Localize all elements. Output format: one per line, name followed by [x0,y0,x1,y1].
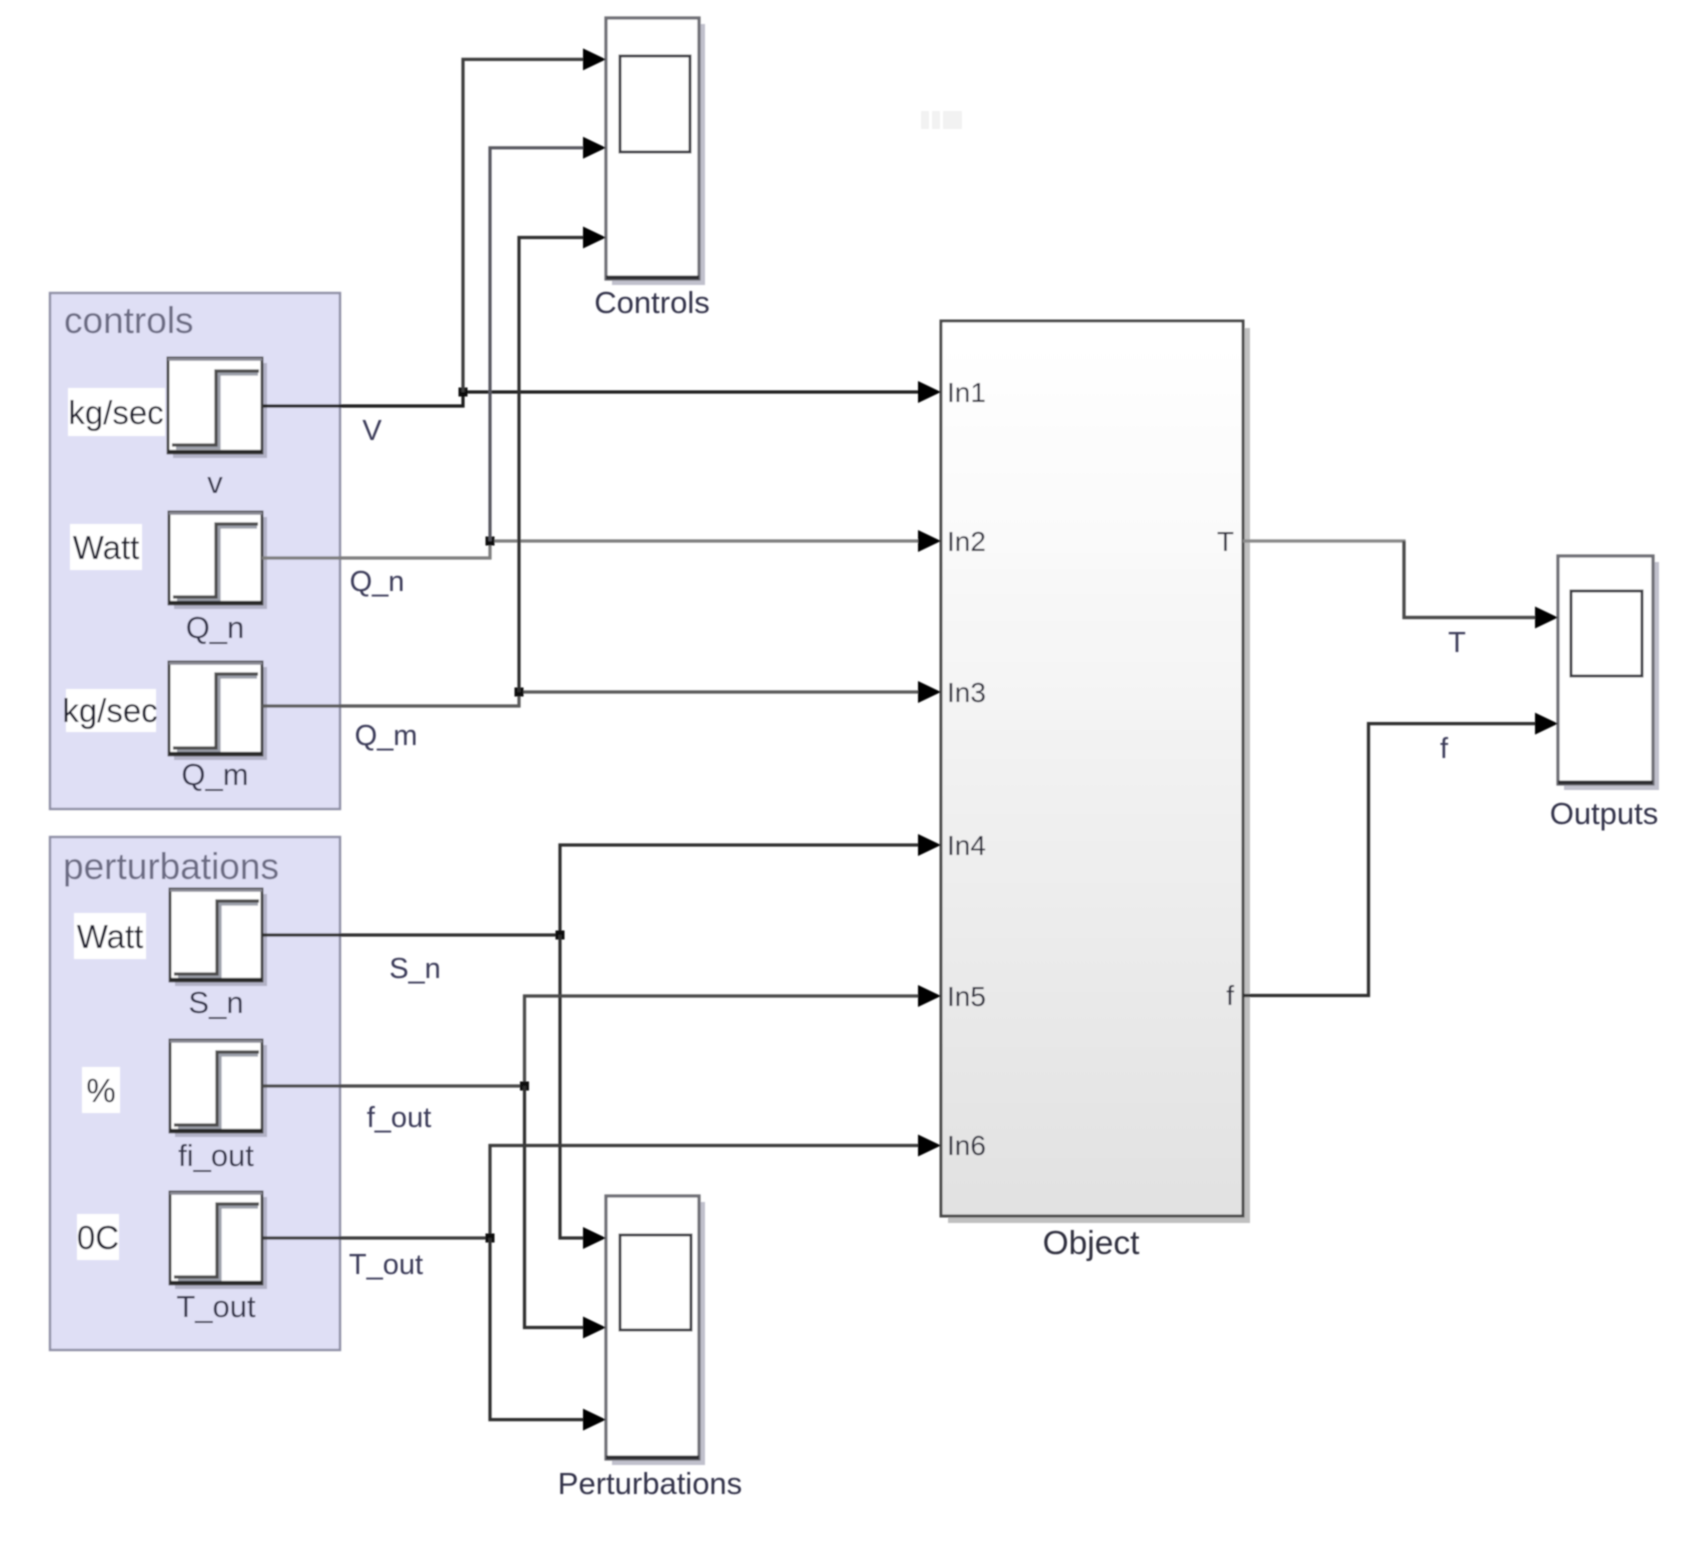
arrow into In1 [918,381,941,403]
svg-text:In6: In6 [947,1130,986,1161]
arrow into Perturbations In2 [583,1317,606,1339]
svg-text:Object: Object [1043,1225,1141,1262]
arrow into Outputs f [1535,713,1558,735]
arrow into In3 [918,681,941,703]
svg-text:Outputs: Outputs [1550,796,1659,831]
wire S_n branch to Perturbations In1 [560,935,585,1238]
unit label % (fi_out) [82,1067,120,1113]
svg-text:kg/sec: kg/sec [68,394,163,431]
svg-text:V: V [362,415,382,447]
arrow into In5 [918,985,941,1007]
wire f_out to In5 [262,996,921,1086]
arrow into In2 [918,530,941,552]
arrow into Controls In2 [583,137,606,159]
group box: perturbations [50,837,340,1350]
svg-text:Watt: Watt [73,529,140,566]
arrow into Controls In1 [583,48,606,70]
junction on S_n wire [556,931,565,940]
svg-text:Perturbations: Perturbations [558,1466,742,1501]
wire Q_n branch to Controls In2 [490,148,585,541]
junction on v wire [459,388,468,397]
svg-text:In5: In5 [947,981,986,1012]
svg-text:f: f [1226,980,1234,1011]
wire Q_m to In3 [262,692,921,706]
wire Q_n to In2 [262,541,921,558]
wire T_out branch to Perturbations In3 [490,1238,585,1420]
unit label Watt (Q_n) [70,524,142,570]
junction on T_out wire [486,1234,495,1243]
svg-text:T_out: T_out [349,1249,423,1281]
unit label kg/sec (Q_m) [66,689,156,732]
svg-text:Q_m: Q_m [181,757,248,792]
scope Controls [606,18,705,285]
wire v branch to Controls In1 [463,59,585,392]
junction on Q_m wire [515,688,524,697]
svg-text:In2: In2 [947,526,986,557]
arrow into In4 [918,834,941,856]
svg-text:Controls: Controls [594,285,709,320]
unit label Watt (S_n) [74,913,146,959]
svg-text:Q_n: Q_n [186,610,245,645]
svg-text:T_out: T_out [176,1289,256,1324]
scope Outputs [1558,556,1659,790]
svg-text:%: % [86,1072,115,1109]
svg-text:controls: controls [64,300,194,341]
svg-text:Q_m: Q_m [355,720,418,752]
svg-text:T: T [1217,526,1234,557]
svg-text:S_n: S_n [389,953,441,985]
step source Q_n [169,512,267,609]
wire f_out branch to Perturbations In2 [525,1086,586,1328]
arrow into Controls In3 [583,227,606,249]
arrow into Perturbations In1 [583,1227,606,1249]
wire f from Object to Outputs [1243,724,1537,996]
wire T from Object to Outputs [1243,541,1537,618]
wire Q_m branch to Controls In3 [519,238,585,693]
watermark [921,111,962,129]
svg-text:0C: 0C [77,1219,119,1256]
svg-text:f_out: f_out [367,1102,432,1134]
subsystem Object [941,321,1250,1223]
arrow into Perturbations In3 [583,1409,606,1431]
unit label kg/sec (v) [68,388,165,436]
svg-text:fi_out: fi_out [178,1138,254,1173]
svg-text:S_n: S_n [188,985,243,1020]
svg-text:Watt: Watt [77,918,144,955]
arrow into Outputs T [1535,607,1558,629]
svg-text:Q_n: Q_n [350,566,405,598]
svg-text:In3: In3 [947,677,986,708]
step source v [168,358,267,458]
wire T_out to In6 [262,1146,921,1239]
svg-text:kg/sec: kg/sec [62,692,157,729]
junction on f_out wire [520,1082,529,1091]
step source T_out [170,1192,267,1289]
arrow into In6 [918,1135,941,1157]
junction on Q_n wire [486,537,495,546]
svg-text:In4: In4 [947,830,986,861]
svg-text:T: T [1448,627,1466,659]
wire S_n to In4 [262,845,921,935]
unit label 0C (T_out) [77,1214,119,1260]
step source S_n [170,889,267,986]
svg-text:v: v [207,465,223,500]
svg-text:perturbations: perturbations [63,846,279,887]
svg-text:f: f [1440,733,1449,765]
step source Q_m [169,662,267,760]
scope Perturbations [606,1196,705,1465]
step source fi_out [170,1040,267,1137]
svg-text:In1: In1 [947,377,986,408]
wire v to In1 [263,392,921,406]
group box: controls [50,293,340,809]
